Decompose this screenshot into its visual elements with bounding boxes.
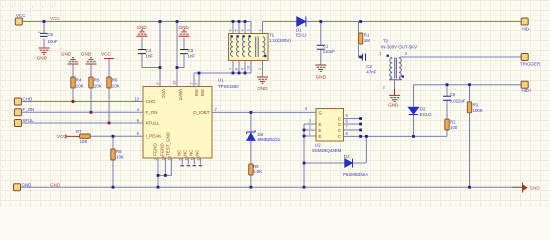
svg-text:SW: SW <box>194 89 199 97</box>
svg-text:VCC: VCC <box>161 89 166 99</box>
svg-text:R7: R7 <box>76 129 82 134</box>
svg-text:1:10(300V): 1:10(300V) <box>269 38 291 43</box>
svg-text:VCC: VCC <box>16 13 25 18</box>
svg-text:R1: R1 <box>364 33 370 38</box>
svg-text:R5: R5 <box>94 78 100 83</box>
svg-text:E: E <box>319 122 322 127</box>
svg-text:100K: 100K <box>473 108 483 113</box>
svg-text:GND: GND <box>50 183 61 188</box>
svg-text:GND: GND <box>316 74 327 79</box>
svg-text:VCC: VCC <box>50 16 60 21</box>
svg-text:GND: GND <box>257 86 268 91</box>
svg-text:I_PEAK: I_PEAK <box>146 134 162 139</box>
svg-text:GND: GND <box>179 25 190 30</box>
svg-text:1: 1 <box>258 29 262 31</box>
svg-text:10uF: 10uF <box>48 39 58 44</box>
svg-text:HID-: HID- <box>522 27 532 32</box>
svg-text:12: 12 <box>195 155 200 160</box>
svg-text:D2: D2 <box>344 154 350 159</box>
svg-text:NC: NC <box>177 149 182 156</box>
svg-text:1.5K: 1.5K <box>253 169 262 174</box>
svg-text:10: 10 <box>134 96 139 101</box>
svg-text:C3: C3 <box>188 48 194 53</box>
svg-text:GND: GND <box>530 185 541 190</box>
svg-text:9: 9 <box>241 68 245 70</box>
svg-text:1M: 1M <box>364 38 370 43</box>
svg-text:NC: NC <box>189 149 194 156</box>
svg-text:P6SMB350A: P6SMB350A <box>343 172 368 177</box>
svg-text:GND: GND <box>388 103 399 108</box>
svg-text:10K: 10K <box>116 155 124 160</box>
svg-text:GND: GND <box>37 56 48 61</box>
svg-text:0.022uF: 0.022uF <box>450 99 466 104</box>
svg-text:NC: NC <box>183 149 188 156</box>
svg-text:XFULL: XFULL <box>146 121 161 126</box>
svg-text:CHO: CHO <box>146 99 156 104</box>
svg-text:VBAT: VBAT <box>178 89 183 101</box>
svg-text:15: 15 <box>172 80 177 85</box>
svg-text:1nF: 1nF <box>188 54 196 59</box>
svg-text:XFUL: XFUL <box>23 118 35 123</box>
svg-text:R3: R3 <box>473 103 479 108</box>
svg-text:F_ON: F_ON <box>146 110 158 115</box>
svg-text:R2: R2 <box>450 120 456 125</box>
svg-text:TEST_GND: TEST_GND <box>166 131 171 156</box>
svg-text:GND: GND <box>137 25 148 30</box>
svg-text:NC: NC <box>195 149 200 156</box>
svg-text:10K: 10K <box>76 84 84 89</box>
svg-text:R6: R6 <box>112 78 118 83</box>
svg-text:13: 13 <box>166 155 171 160</box>
svg-text:U2: U2 <box>315 143 321 148</box>
svg-text:110nF: 110nF <box>323 49 335 54</box>
svg-text:E: E <box>319 128 322 133</box>
svg-text:SSM25Q43EM: SSM25Q43EM <box>312 148 342 153</box>
svg-text:G: G <box>319 110 323 115</box>
svg-text:IN-300V OUT-5KV: IN-300V OUT-5KV <box>381 44 417 49</box>
svg-text:U1: U1 <box>218 78 224 83</box>
svg-text:C6: C6 <box>48 32 54 37</box>
svg-text:10: 10 <box>247 66 251 70</box>
svg-text:ES1J: ES1J <box>296 33 307 38</box>
svg-text:VCC: VCC <box>101 51 111 56</box>
svg-text:5: 5 <box>235 29 239 31</box>
svg-text:C1: C1 <box>323 44 329 49</box>
svg-text:4: 4 <box>241 29 245 31</box>
svg-text:FGND: FGND <box>160 143 165 156</box>
svg-text:T2: T2 <box>383 39 389 44</box>
svg-text:16: 16 <box>183 155 188 160</box>
svg-text:TPS61560: TPS61560 <box>218 84 239 89</box>
svg-text:14: 14 <box>160 155 165 160</box>
svg-text:FGND: FGND <box>152 143 157 156</box>
svg-text:3: 3 <box>247 29 251 31</box>
svg-text:GND: GND <box>22 182 32 187</box>
svg-text:1nF: 1nF <box>146 54 154 59</box>
svg-text:TRIGGER: TRIGGER <box>520 61 540 66</box>
svg-text:GND: GND <box>61 51 72 56</box>
svg-text:CHO: CHO <box>23 96 33 101</box>
svg-text:T1: T1 <box>269 32 275 37</box>
svg-text:O_IOBT: O_IOBT <box>193 110 210 115</box>
svg-text:10K: 10K <box>94 84 102 89</box>
svg-text:100: 100 <box>450 125 458 130</box>
svg-text:MMBZ5231: MMBZ5231 <box>258 137 281 142</box>
svg-text:R4: R4 <box>76 78 82 83</box>
svg-text:D2: D2 <box>420 107 426 112</box>
svg-text:2: 2 <box>258 68 262 70</box>
svg-text:R8: R8 <box>116 149 122 154</box>
svg-text:HID+: HID+ <box>522 88 533 93</box>
svg-text:47nF: 47nF <box>366 70 376 75</box>
svg-text:C2: C2 <box>366 64 372 69</box>
svg-text:7: 7 <box>229 68 233 70</box>
svg-text:VCC: VCC <box>57 134 67 139</box>
svg-text:10K: 10K <box>80 139 88 144</box>
svg-text:E: E <box>319 134 322 139</box>
svg-text:10K: 10K <box>112 84 120 89</box>
svg-text:SW: SW <box>200 89 205 97</box>
svg-text:GND: GND <box>81 51 92 56</box>
svg-text:C4: C4 <box>146 48 152 53</box>
svg-text:6: 6 <box>229 29 233 31</box>
svg-text:8: 8 <box>235 68 239 70</box>
svg-text:ES1G: ES1G <box>420 112 432 117</box>
svg-text:C9: C9 <box>450 92 456 97</box>
svg-text:F_ON: F_ON <box>23 107 35 112</box>
